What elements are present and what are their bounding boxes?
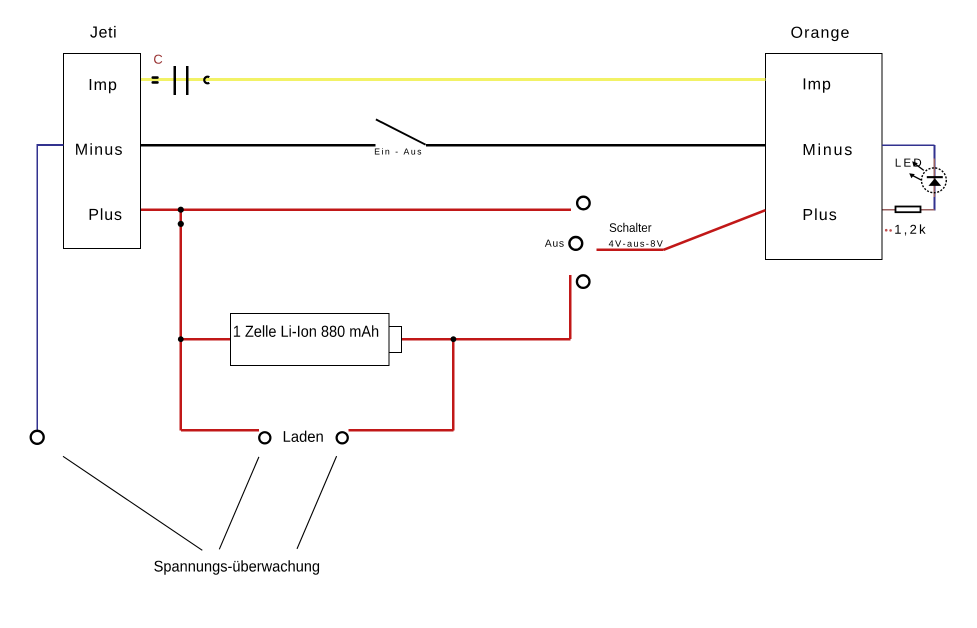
junction node Plus B (178, 221, 184, 227)
battery terminal tab (389, 327, 402, 353)
switch S2 terminal middle Aus (569, 237, 582, 250)
wire red vertical (to switch bottom terminal) (569, 275, 572, 339)
wire blue LED loop vertical (933, 145, 935, 210)
junction node battery minus (178, 336, 184, 342)
label Orange (791, 27, 848, 42)
capacitor label C (154, 55, 162, 64)
label 1,2k (895, 224, 925, 235)
switch S1 blade Ein-Aus (376, 119, 426, 144)
pointer line 3 (to Laden right) (297, 456, 337, 549)
label Jeti (90, 26, 115, 38)
capacitor C1 right marker (204, 77, 209, 84)
dotted marks before 1,2k (885, 229, 892, 232)
wire red switch diagonal to Orange Plus (664, 210, 766, 250)
wire blue LED loop horizontal (882, 145, 935, 210)
pin label Minus (Jeti) (76, 143, 122, 155)
junction node battery plus (451, 336, 457, 342)
pin label Imp (Jeti) (90, 79, 117, 93)
terminal circle Minus sense (31, 431, 44, 444)
label 4V-aus-8V (609, 240, 663, 247)
label LED (896, 159, 921, 167)
junction node Plus A (178, 207, 184, 213)
pin label Minus (Orange) (804, 143, 852, 155)
LED D1 circle (922, 168, 947, 193)
switch S2 terminal top (577, 197, 590, 210)
battery label 1 Zelle Li-Ion 880 mAh (234, 325, 378, 337)
wire red battery minus lead (181, 338, 232, 341)
pointer line 2 (to Laden left) (219, 457, 259, 549)
LED D1 cathode bar (927, 176, 943, 178)
resistor R1 body (896, 207, 921, 213)
wire red vertical (Plus down to Laden) (180, 210, 183, 431)
wire red Plus (Jeti to switch) (141, 210, 664, 431)
LED arrow 1 (912, 161, 924, 170)
receiver box Jeti U1 (64, 54, 141, 249)
capacitor C1 plates (174, 66, 189, 95)
terminal circle Laden left (259, 432, 270, 443)
wire blue Minus sense (horizontal) (36, 144, 63, 431)
wire red vertical (battery plus to Laden) (452, 339, 455, 430)
wire dark red LED lead vertical (933, 159, 935, 197)
wire red battery plus lead (402, 338, 571, 341)
wire red Laden right (348, 429, 453, 432)
pin label Imp (Orange) (804, 78, 831, 92)
pointer line 1 (to blue terminal) (63, 456, 202, 550)
pin label Plus (Jeti) (90, 208, 122, 220)
terminal circle Laden right (337, 432, 348, 443)
LED D1 triangle (929, 178, 942, 186)
wire black Minus (Orange side) (426, 144, 766, 147)
wire yellow Imp (Jeti to Orange) (141, 78, 765, 81)
wire blue Minus sense (vertical) (36, 144, 38, 431)
switch S2 terminal bottom (577, 275, 590, 288)
wire dark red resistor lead (882, 209, 934, 211)
wire red switch output horizontal (597, 249, 664, 252)
receiver box Orange U2 (766, 54, 883, 260)
pin label Plus (Orange) (804, 208, 837, 220)
label Schalter (610, 223, 652, 232)
label Laden (284, 431, 323, 442)
capacitor C1 left marker (152, 76, 159, 84)
battery cell B1 (231, 314, 390, 366)
wire black Minus (Jeti side) (141, 144, 376, 147)
label Spannungs-ueberwachung (154, 560, 319, 574)
switch label Ein - Aus (375, 148, 421, 154)
label Aus (545, 240, 564, 247)
LED arrow 2 (909, 173, 922, 180)
wire red Laden left (181, 429, 259, 432)
